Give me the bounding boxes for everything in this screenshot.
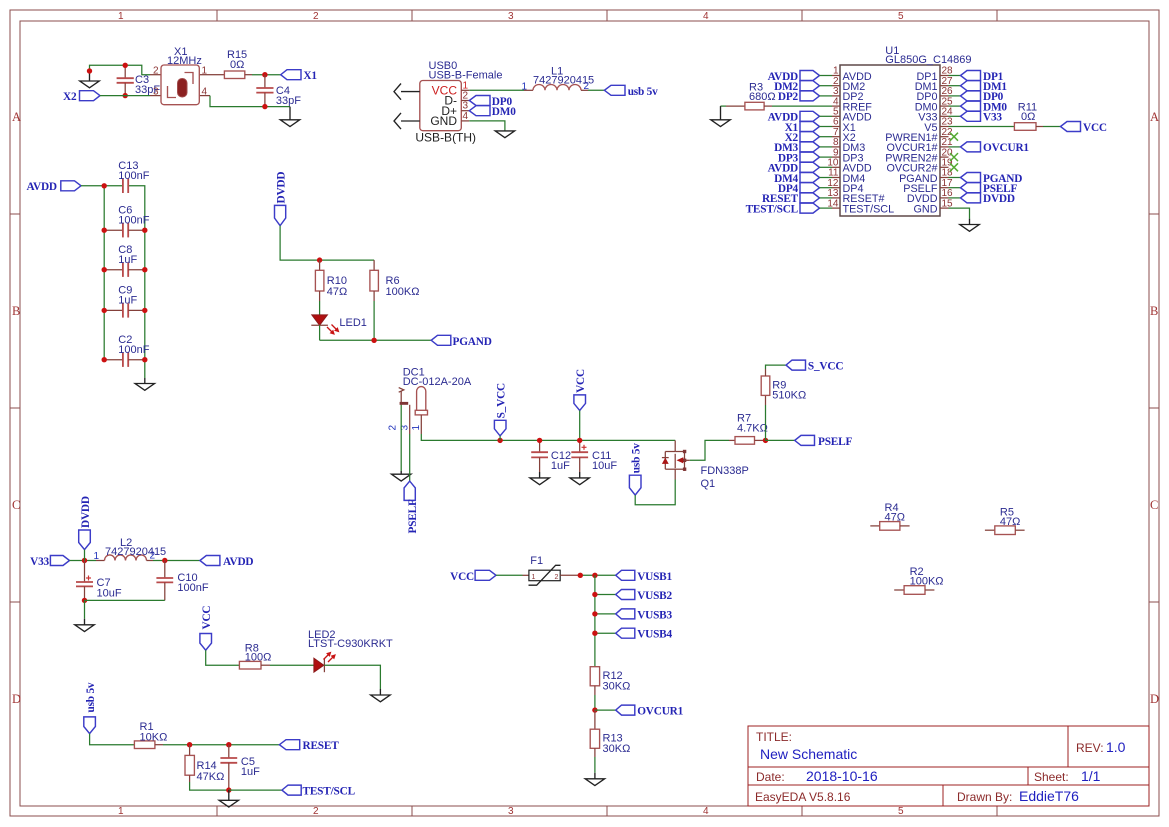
- svg-text:D: D: [12, 692, 21, 706]
- capacitor C3: [117, 65, 161, 96]
- svg-text:47Ω: 47Ω: [885, 512, 905, 524]
- svg-text:VUSB4: VUSB4: [637, 629, 672, 641]
- svg-text:VUSB1: VUSB1: [637, 571, 672, 583]
- fuse F1: [523, 555, 581, 585]
- net flag usb 5v: [629, 443, 642, 495]
- net flag VCC: [450, 570, 496, 583]
- junction: [102, 267, 148, 272]
- LED2BLOCK: [200, 606, 393, 702]
- net flag X2 pin7: [785, 132, 832, 144]
- svg-text:S_VCC: S_VCC: [808, 361, 843, 373]
- net flag OVCUR1: [616, 705, 684, 718]
- svg-text:4: 4: [463, 111, 469, 122]
- wire: [128, 186, 145, 378]
- svg-text:5: 5: [898, 11, 904, 22]
- svg-text:1/1: 1/1: [1081, 768, 1101, 784]
- wire: [594, 575, 596, 666]
- wire: [100, 95, 150, 97]
- svg-text:X1: X1: [303, 70, 317, 82]
- ground: [371, 689, 390, 702]
- svg-text:USB-B(TH): USB-B(TH): [415, 131, 476, 145]
- svg-text:LED1: LED1: [339, 317, 367, 329]
- net flag DM0: [469, 106, 516, 119]
- wire: [81, 185, 123, 187]
- resistor R6: [370, 260, 420, 301]
- svg-text:2: 2: [555, 574, 559, 581]
- wire: [588, 89, 604, 91]
- junction: [592, 592, 597, 597]
- capacitor C2: [104, 334, 150, 367]
- net flag V33: [30, 556, 69, 569]
- net flag PGAND pin18: [949, 173, 1023, 185]
- net flag DVDD: [79, 496, 92, 560]
- wire: [949, 126, 1015, 128]
- wire: [635, 480, 675, 505]
- net flag VCC: [574, 369, 587, 440]
- ground: [960, 219, 979, 232]
- svg-text:10uF: 10uF: [592, 460, 617, 472]
- wire: [595, 709, 616, 711]
- capacitor C5: [220, 745, 260, 790]
- svg-text:4.7KΩ: 4.7KΩ: [737, 423, 768, 435]
- USB0 body: [420, 81, 462, 131]
- net flag DP4 pin12: [778, 183, 832, 195]
- svg-text:B: B: [12, 304, 20, 318]
- ground: [75, 619, 94, 632]
- svg-text:LTST-C930KRKT: LTST-C930KRKT: [308, 638, 393, 650]
- capacitor C11: [571, 440, 617, 472]
- net flag X1 pin6: [785, 122, 832, 134]
- svg-text:A: A: [1150, 110, 1159, 124]
- capacitor C8: [104, 244, 145, 277]
- svg-text:1: 1: [411, 425, 422, 431]
- net flag DVDD pin16: [949, 193, 1015, 205]
- net flag PSELF pin17: [949, 183, 1018, 195]
- wire: [469, 121, 505, 131]
- capacitor C10: [156, 561, 208, 601]
- wire: [229, 789, 282, 791]
- svg-text:VCC: VCC: [575, 369, 587, 393]
- svg-text:GL850G_C14869: GL850G_C14869: [885, 54, 971, 66]
- svg-text:100KΩ: 100KΩ: [910, 575, 944, 587]
- net flag OVCUR1 pin21: [949, 142, 1030, 154]
- svg-text:AVDD: AVDD: [223, 556, 253, 568]
- net flag X2: [63, 91, 100, 103]
- junction: [102, 183, 107, 188]
- ground: [711, 106, 730, 127]
- svg-text:47Ω: 47Ω: [1000, 516, 1020, 528]
- svg-text:0Ω: 0Ω: [1021, 111, 1035, 123]
- ground: [530, 472, 549, 485]
- capacitor C7: [76, 561, 122, 601]
- wire: [690, 440, 729, 460]
- wire: [469, 89, 524, 91]
- svg-text:New Schematic: New Schematic: [760, 746, 857, 762]
- svg-text:DM0: DM0: [492, 106, 516, 118]
- U1 pin numbers 1-14: [827, 66, 839, 210]
- svg-text:C: C: [1150, 498, 1158, 512]
- connector USB0: [394, 60, 502, 145]
- svg-text:TITLE:: TITLE:: [756, 730, 792, 744]
- svg-text:VCC: VCC: [450, 571, 474, 583]
- DCBLOCK: [388, 360, 853, 533]
- net flag VUSB4: [616, 628, 673, 641]
- wire: [1043, 126, 1061, 128]
- junction: [102, 228, 148, 233]
- svg-text:3: 3: [508, 806, 514, 817]
- U1 pin stubs: [832, 76, 949, 209]
- svg-text:Date:: Date:: [756, 770, 785, 784]
- net flag X1: [281, 70, 318, 83]
- net flag PSELF: [795, 435, 853, 448]
- junction: [537, 438, 542, 443]
- svg-text:A: A: [12, 110, 21, 124]
- svg-text:VUSB2: VUSB2: [637, 590, 672, 602]
- capacitor C4: [256, 75, 301, 107]
- svg-text:S_VCC: S_VCC: [495, 383, 507, 418]
- U1 pin names right: [885, 71, 938, 216]
- inductor L2: [94, 537, 167, 562]
- svg-text:1: 1: [532, 574, 536, 581]
- FUSEBLOCK: [450, 555, 683, 786]
- wire: [409, 434, 411, 481]
- svg-text:X2: X2: [63, 91, 77, 103]
- resistor R14: [185, 745, 224, 784]
- net flag AVDD pin10: [768, 162, 832, 174]
- U1BLOCK: [711, 45, 1107, 231]
- wire: [85, 599, 165, 601]
- USB0 mounting pins: [401, 91, 420, 93]
- resistor R11: [1014, 102, 1043, 131]
- svg-text:7427920415: 7427920415: [105, 546, 166, 558]
- svg-text:REV:: REV:: [1076, 741, 1104, 755]
- wire: [320, 339, 432, 341]
- svg-text:F1: F1: [530, 555, 543, 567]
- net flag TEST/SCL: [282, 785, 356, 798]
- ground: [392, 471, 411, 481]
- net flag DP3 pin9: [778, 152, 832, 164]
- svg-text:FDN338P: FDN338P: [701, 465, 749, 477]
- capacitor C13: [118, 160, 149, 193]
- svg-text:V33: V33: [983, 112, 1002, 124]
- wire: [153, 560, 200, 562]
- U1 pin names left: [843, 71, 895, 216]
- junction: [123, 93, 128, 98]
- resistor R7: [729, 413, 768, 445]
- svg-text:B: B: [1150, 304, 1158, 318]
- svg-text:4: 4: [703, 11, 709, 22]
- wire: [496, 574, 523, 576]
- capacitor C6: [104, 205, 150, 238]
- svg-text:OVCUR1: OVCUR1: [983, 142, 1029, 154]
- U1 body: [840, 65, 940, 216]
- svg-text:1uF: 1uF: [241, 766, 260, 778]
- svg-text:2: 2: [153, 66, 159, 77]
- wire: [210, 96, 290, 107]
- svg-text:EasyEDA V5.8.16: EasyEDA V5.8.16: [755, 790, 851, 804]
- net flag PGAND: [431, 335, 492, 348]
- wire: [280, 226, 374, 260]
- L1 coil and pins: [524, 89, 533, 91]
- TITLEBLOCK: [748, 726, 1149, 806]
- junction: [102, 357, 148, 362]
- svg-text:PSELF: PSELF: [818, 436, 852, 448]
- svg-text:10KΩ: 10KΩ: [140, 732, 168, 744]
- svg-text:GND: GND: [914, 203, 938, 215]
- ground: [570, 472, 589, 485]
- LED LED1: [311, 301, 367, 340]
- net flag DM2 pin2: [774, 81, 832, 93]
- net flag AVDD pin5: [768, 111, 832, 123]
- net flag S_VCC: [494, 383, 507, 440]
- net flag V33 pin24: [949, 111, 1003, 123]
- svg-text:C: C: [12, 498, 20, 512]
- resistor R2: [894, 566, 943, 595]
- wire: [421, 434, 675, 440]
- ground: [135, 378, 154, 390]
- net flag RESET: [279, 740, 339, 753]
- resistor R13: [590, 710, 630, 757]
- svg-text:1: 1: [522, 82, 528, 93]
- ground: [495, 131, 514, 138]
- ground: [80, 71, 99, 88]
- connector DC1: [388, 367, 472, 435]
- resistor R10: [315, 260, 347, 301]
- svg-text:100nF: 100nF: [177, 582, 208, 594]
- svg-text:EddieT76: EddieT76: [1019, 788, 1079, 804]
- svg-text:7427920415: 7427920415: [533, 75, 594, 87]
- wire: [772, 105, 832, 107]
- svg-text:4: 4: [202, 86, 208, 97]
- XTALBLOCK: [63, 46, 317, 127]
- junction: [123, 63, 128, 68]
- L2 coil and pins: [96, 560, 105, 562]
- wire: [90, 65, 151, 74]
- L2BLOCK: [30, 496, 253, 631]
- svg-text:1: 1: [94, 551, 100, 562]
- svg-text:4: 4: [703, 806, 709, 817]
- net flag RESET pin13: [762, 193, 832, 205]
- net flag DM1 pin27: [949, 81, 1008, 93]
- svg-text:680Ω: 680Ω: [749, 91, 776, 103]
- net flag DP1 pin28: [949, 71, 1004, 83]
- svg-text:47KΩ: 47KΩ: [197, 771, 225, 783]
- svg-text:GND: GND: [430, 114, 457, 128]
- svg-text:100Ω: 100Ω: [245, 652, 272, 664]
- junction: [317, 257, 322, 262]
- svg-text:VCC: VCC: [1083, 122, 1107, 134]
- net flag PSELF: [404, 481, 419, 533]
- resistor R12: [590, 667, 630, 695]
- svg-text:D: D: [1150, 692, 1159, 706]
- resistor R9: [761, 369, 806, 405]
- net flag VCC: [1061, 122, 1107, 135]
- wire: [594, 695, 596, 710]
- wire: [595, 632, 616, 634]
- wire: [84, 600, 86, 618]
- wire: [252, 74, 281, 76]
- svg-text:DVDD: DVDD: [80, 496, 92, 528]
- junction: [162, 558, 167, 563]
- wire: [103, 186, 105, 360]
- junction: [592, 611, 597, 616]
- junction: [577, 438, 582, 443]
- LED LED2: [308, 629, 393, 672]
- svg-text:PSELF: PSELF: [407, 499, 419, 533]
- junction: [82, 558, 87, 563]
- wire: [324, 665, 380, 689]
- capacitor C12: [531, 440, 571, 472]
- wire: [765, 405, 767, 440]
- svg-text:VUSB3: VUSB3: [637, 609, 672, 621]
- IC U1 GL850G: [827, 45, 971, 216]
- svg-text:Q1: Q1: [701, 478, 716, 490]
- wire: [400, 405, 402, 471]
- svg-text:47Ω: 47Ω: [327, 286, 347, 298]
- svg-text:1: 1: [118, 11, 124, 22]
- net flag AVDD: [200, 556, 254, 569]
- no-connect pin20: [950, 153, 958, 161]
- svg-text:100nF: 100nF: [118, 215, 149, 227]
- wire: [595, 613, 616, 615]
- svg-text:AVDD: AVDD: [27, 181, 57, 193]
- ground: [280, 107, 299, 127]
- junction: [262, 72, 267, 77]
- svg-text:TEST/SCL: TEST/SCL: [843, 203, 895, 215]
- wire: [163, 744, 279, 746]
- svg-text:DVDD: DVDD: [276, 172, 288, 204]
- svg-text:usb 5v: usb 5v: [628, 86, 658, 98]
- net flag DP0: [469, 96, 512, 109]
- wire: [721, 105, 727, 107]
- Q1 mosfet body: [674, 440, 676, 451]
- svg-text:1uF: 1uF: [118, 254, 137, 266]
- svg-text:12MHz: 12MHz: [167, 55, 202, 67]
- resistor R15: [210, 49, 252, 79]
- svg-text:VCC: VCC: [201, 606, 213, 630]
- no-connect pin22: [950, 133, 958, 141]
- wire: [766, 365, 787, 369]
- SPARES: [870, 502, 1024, 594]
- net flag S_VCC: [786, 360, 843, 373]
- svg-text:2018-10-16: 2018-10-16: [806, 768, 878, 784]
- LEDBLOCK1: [275, 172, 492, 348]
- inductor L1: [522, 66, 595, 93]
- svg-text:usb 5v: usb 5v: [85, 682, 97, 712]
- svg-text:3: 3: [153, 86, 159, 97]
- svg-text:Sheet:: Sheet:: [1034, 770, 1069, 784]
- net flag usb 5v: [604, 85, 658, 98]
- svg-text:2: 2: [388, 425, 399, 431]
- USBBLOCK: [394, 60, 658, 145]
- DC1 jack contacts: [399, 388, 404, 393]
- svg-text:DC-012A-20A: DC-012A-20A: [403, 376, 472, 388]
- svg-text:OVCUR1: OVCUR1: [637, 706, 683, 718]
- junction: [592, 631, 597, 636]
- CAPBANK: [27, 160, 155, 390]
- svg-text:1: 1: [118, 806, 124, 817]
- svg-text:PGAND: PGAND: [453, 336, 492, 348]
- net flag VUSB2: [616, 590, 673, 603]
- resistor R8: [239, 643, 271, 670]
- wire: [70, 560, 97, 562]
- svg-text:30KΩ: 30KΩ: [603, 743, 631, 755]
- svg-text:RESET: RESET: [303, 740, 340, 752]
- net flag DVDD: [275, 172, 288, 226]
- svg-text:33pF: 33pF: [276, 95, 301, 107]
- svg-text:30KΩ: 30KΩ: [603, 681, 631, 693]
- net flag AVDD pin1: [768, 71, 832, 83]
- svg-text:1uF: 1uF: [551, 460, 570, 472]
- svg-text:DVDD: DVDD: [983, 193, 1015, 205]
- junction: [371, 338, 376, 343]
- ground: [219, 790, 238, 807]
- svg-text:10uF: 10uF: [97, 588, 122, 600]
- svg-text:TEST/SCL: TEST/SCL: [303, 786, 356, 798]
- net flag DP0 pin26: [949, 91, 1004, 103]
- wire: [595, 594, 616, 596]
- capacitor C9: [104, 285, 145, 318]
- svg-text:1uF: 1uF: [118, 295, 137, 307]
- ground: [585, 773, 604, 786]
- wire: [949, 208, 970, 219]
- wire: [90, 734, 135, 745]
- junction: [226, 787, 231, 792]
- svg-text:510KΩ: 510KΩ: [772, 390, 806, 402]
- no-connect pin19: [950, 163, 958, 171]
- svg-text:100KΩ: 100KΩ: [386, 286, 420, 298]
- net flag DM3 pin8: [774, 142, 832, 154]
- U1 pin numbers 28-15: [942, 66, 954, 210]
- wire: [206, 650, 240, 665]
- junction: [763, 438, 768, 443]
- resistor R4: [870, 502, 909, 530]
- svg-text:2: 2: [313, 11, 319, 22]
- net flag VCC: [200, 606, 213, 651]
- net flag DM4 pin11: [774, 173, 832, 185]
- crystal X1: [150, 46, 210, 105]
- wire: [190, 782, 229, 790]
- junction: [82, 598, 87, 603]
- net flag usb 5v: [84, 682, 97, 734]
- resistor R5: [985, 506, 1025, 534]
- svg-text:100nF: 100nF: [118, 170, 149, 182]
- net flag AVDD: [27, 181, 82, 193]
- transistor Q1: [662, 440, 749, 490]
- wire: [594, 757, 596, 773]
- junction: [102, 308, 148, 313]
- svg-text:5: 5: [898, 806, 904, 817]
- net flag DM0 pin25: [949, 101, 1008, 113]
- svg-text:1: 1: [202, 66, 208, 77]
- USB0 pin stubs: [461, 89, 469, 91]
- svg-text:2: 2: [313, 806, 319, 817]
- RESETBLOCK: [84, 682, 356, 807]
- svg-text:Drawn By:: Drawn By:: [957, 790, 1012, 804]
- junction: [578, 573, 598, 578]
- svg-text:100nF: 100nF: [118, 344, 149, 356]
- svg-text:DP2: DP2: [778, 91, 799, 103]
- svg-text:3: 3: [508, 11, 514, 22]
- net flag TEST/SCL pin14: [746, 203, 832, 215]
- wire: [580, 574, 615, 576]
- net flag VUSB1: [616, 570, 673, 583]
- wire: [766, 439, 795, 441]
- svg-text:V33: V33: [30, 556, 49, 568]
- resistor R3: [726, 82, 776, 110]
- net flag DP2 pin3: [778, 91, 832, 103]
- junction: [592, 707, 597, 712]
